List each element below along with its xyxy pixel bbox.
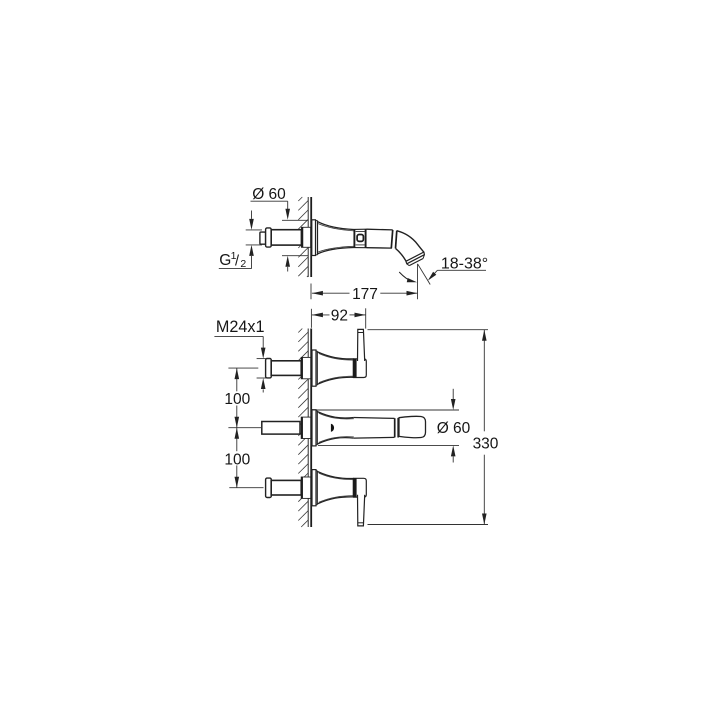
spout outlet hole mark (331, 424, 334, 432)
bottom handle head (353, 478, 366, 497)
spout outlet mouth (406, 252, 425, 264)
spout escutcheon (elevation) (312, 410, 316, 446)
dim 330 extension lines (368, 329, 489, 331)
angle arc (399, 272, 412, 281)
svg-text:100: 100 (224, 391, 250, 408)
bottom handle escutcheon (312, 470, 316, 506)
dim 330 line (483, 330, 485, 432)
dim dia60 leader (251, 200, 288, 202)
wall hatching (lower view) (298, 329, 308, 528)
svg-text:18-38°: 18-38° (441, 255, 488, 272)
dim 100 upper extension lines (228, 367, 258, 369)
dim dia60 extension lines (282, 219, 308, 221)
spout tube top (367, 228, 393, 231)
spout supply pipe (262, 422, 300, 435)
dim dia60 lower arrows (452, 389, 454, 399)
bottom handle lever rod (358, 495, 365, 526)
escutcheon ring (317, 221, 319, 255)
spout cone bottom edge (318, 248, 354, 254)
G1/2 pipe body (271, 230, 301, 245)
svg-text:2: 2 (240, 258, 246, 270)
dim dia60 lower extension lines (313, 409, 459, 411)
spout joint bars (394, 418, 396, 437)
spout window detail (356, 231, 365, 233)
dim M24x1 extension ticks (257, 358, 267, 360)
dim G1/2 arrows (249, 219, 254, 230)
outlet angle line (418, 264, 430, 284)
svg-text:330: 330 (473, 435, 499, 452)
wall face line (lower view) (310, 329, 312, 528)
svg-text:Ø 60: Ø 60 (437, 420, 471, 437)
wall hatching (top view) (298, 197, 308, 277)
top handle head (353, 359, 366, 378)
svg-text:100: 100 (224, 452, 250, 469)
dim 177 extension line at wall (310, 284, 312, 300)
spout head inner curve (396, 248, 406, 261)
top handle escutcheon (312, 350, 316, 386)
svg-text:M24x1: M24x1 (216, 318, 265, 336)
dim 92 line (312, 314, 330, 316)
top handle lever rod (358, 329, 365, 361)
spout head (elevation) (399, 416, 426, 437)
G1/2 connection stub (260, 232, 266, 244)
svg-text:Ø 60: Ø 60 (252, 186, 286, 203)
dim G1/2 extension lines (246, 229, 262, 231)
spout tube bottom edge (354, 436, 395, 439)
outlet vertical reference line (417, 264, 419, 300)
bottom handle supply + in-wall block (266, 478, 272, 497)
spout escutcheon plate (side) (312, 220, 316, 256)
dim 177 line (312, 292, 350, 294)
svg-text:177: 177 (352, 286, 378, 303)
svg-text:92: 92 (331, 308, 348, 325)
wall face line (top view) (310, 197, 312, 277)
pipe block inside wall (302, 227, 311, 247)
dim M24x1 leader (214, 335, 263, 337)
spout cone top edge (318, 222, 354, 230)
dim 100 upper line (236, 368, 238, 391)
leader to 18-38 label (437, 269, 486, 271)
svg-text:G: G (219, 252, 231, 269)
dim M24x1 arrows (261, 348, 266, 359)
spout joint (391, 230, 392, 248)
spout band (354, 228, 367, 230)
spout head outer curve (397, 231, 424, 252)
dim 92 extension lines (310, 309, 312, 328)
G1/2 flange ring (266, 228, 272, 247)
spout tube bottom (367, 247, 392, 249)
dim dia60 lower arrow (285, 256, 290, 267)
spout tube top edge (354, 417, 395, 420)
top handle supply + in-wall block (266, 359, 272, 378)
dim 100 lower line (236, 428, 238, 452)
